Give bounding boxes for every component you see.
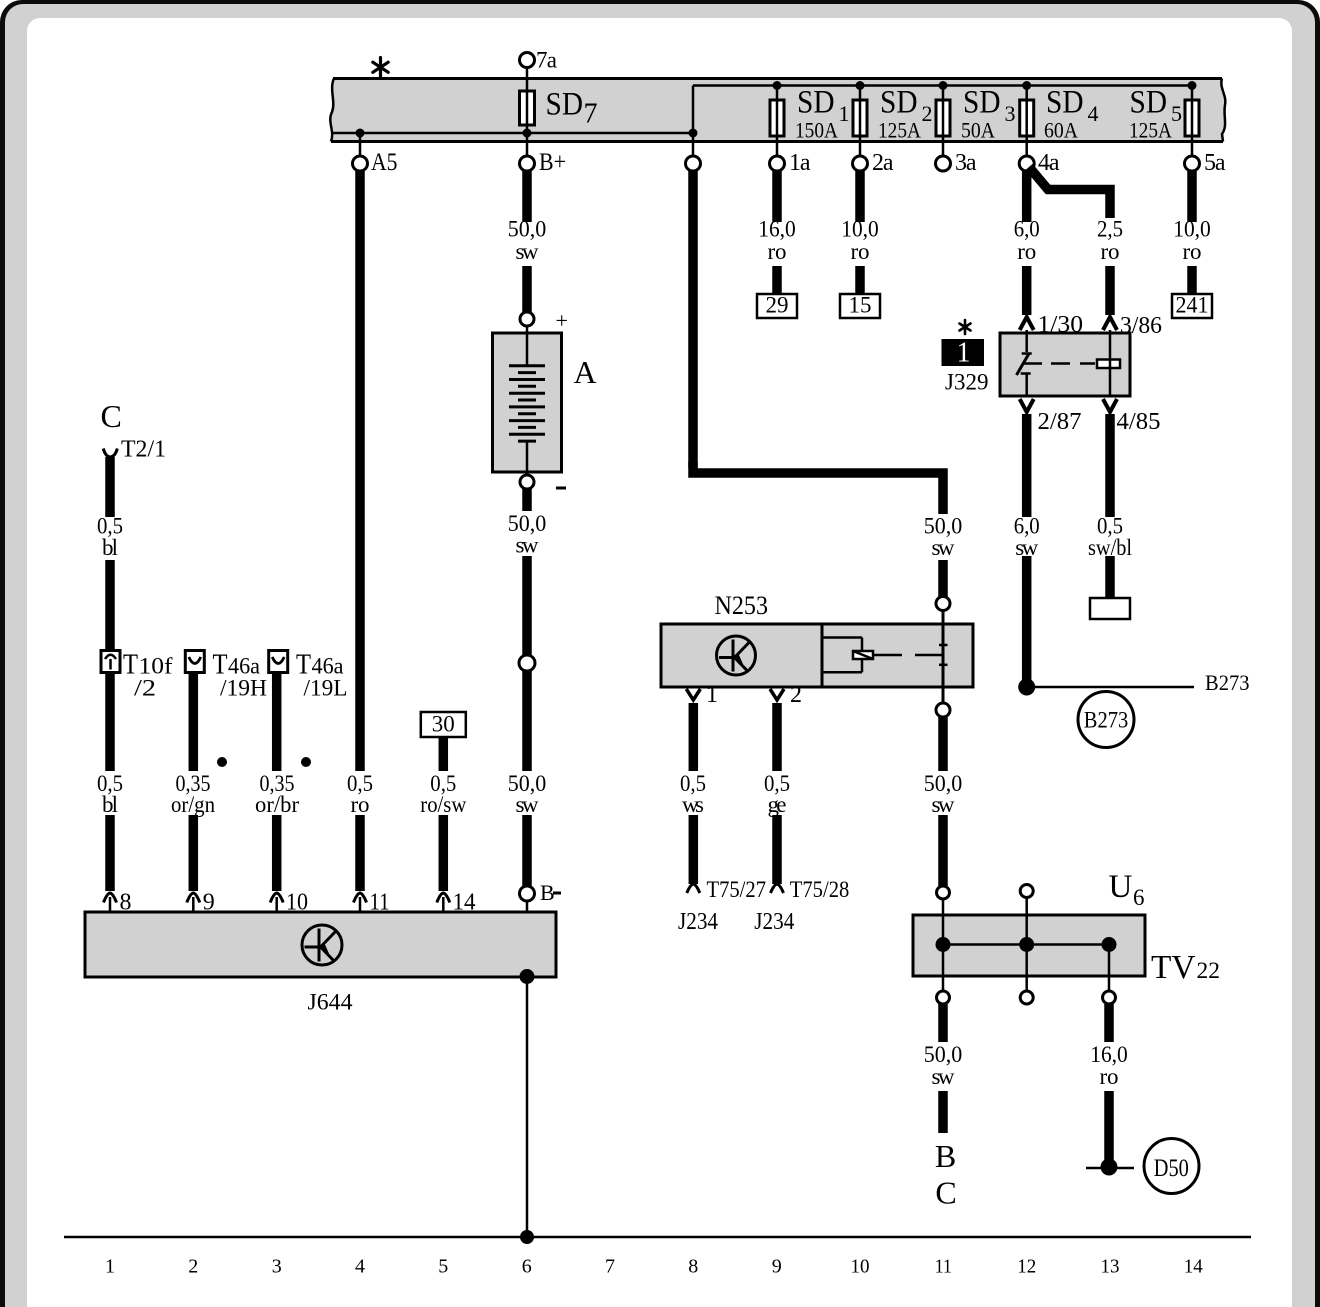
svg-text:30: 30 (432, 712, 455, 737)
svg-text:SD: SD (1130, 85, 1168, 121)
svg-text:ws: ws (682, 792, 704, 817)
svg-text:2a: 2a (872, 150, 894, 176)
svg-text:10,0: 10,0 (1173, 217, 1211, 242)
svg-text:50,0: 50,0 (508, 217, 547, 242)
svg-text:7a: 7a (536, 48, 557, 73)
svg-text:B273: B273 (1205, 670, 1250, 695)
svg-text:SD: SD (963, 85, 1001, 121)
svg-text:B: B (935, 1138, 956, 1174)
svg-text:11: 11 (935, 1256, 952, 1278)
svg-text:150A: 150A (795, 118, 839, 143)
svg-text:3a: 3a (955, 150, 977, 176)
svg-text:3: 3 (272, 1256, 282, 1278)
svg-text:SD: SD (1046, 85, 1084, 121)
svg-text:sw: sw (1015, 535, 1038, 560)
svg-text:/19H: /19H (220, 676, 267, 702)
svg-text:sw/bl: sw/bl (1088, 535, 1132, 560)
svg-text:1: 1 (957, 338, 971, 369)
svg-text:U: U (1109, 869, 1133, 905)
svg-text:60A: 60A (1044, 118, 1079, 143)
svg-text:C: C (935, 1175, 956, 1211)
svg-text:J234: J234 (754, 909, 794, 935)
svg-text:1a: 1a (789, 150, 811, 176)
svg-text:N253: N253 (715, 590, 769, 620)
svg-text:8: 8 (688, 1256, 698, 1278)
svg-text:125A: 125A (878, 118, 922, 143)
svg-text:6: 6 (522, 1256, 532, 1278)
svg-text:5: 5 (1171, 101, 1182, 126)
svg-text:ge: ge (768, 792, 787, 817)
svg-text:5a: 5a (1204, 150, 1226, 176)
svg-text:SD: SD (797, 85, 835, 121)
svg-text:T75/28: T75/28 (790, 877, 850, 903)
svg-text:B: B (540, 880, 555, 905)
svg-text:5: 5 (438, 1256, 448, 1278)
svg-text:10: 10 (851, 1256, 870, 1278)
svg-text:4/85: 4/85 (1117, 408, 1161, 435)
svg-text:/2: /2 (134, 676, 156, 702)
svg-text:2: 2 (188, 1256, 198, 1278)
svg-text:ro: ro (1017, 239, 1036, 264)
svg-text:4: 4 (355, 1256, 365, 1278)
svg-text:sw: sw (932, 792, 955, 817)
svg-text:ro: ro (1100, 1064, 1119, 1089)
svg-text:C: C (101, 398, 122, 434)
svg-text:B+: B+ (539, 149, 566, 176)
svg-text:1: 1 (706, 682, 718, 708)
svg-text:3: 3 (1005, 101, 1016, 126)
svg-text:SD: SD (880, 85, 918, 121)
svg-text:or/br: or/br (255, 792, 299, 817)
svg-text:6,0: 6,0 (1014, 217, 1040, 242)
svg-text:14: 14 (1184, 1256, 1203, 1278)
svg-text:J329: J329 (945, 370, 989, 396)
svg-text:241: 241 (1176, 293, 1209, 318)
svg-text:16,0: 16,0 (758, 217, 796, 242)
svg-text:125A: 125A (1129, 118, 1173, 143)
svg-text:T75/27: T75/27 (707, 877, 767, 903)
svg-text:+: + (556, 308, 568, 333)
svg-text:sw: sw (932, 1064, 955, 1089)
svg-text:D50: D50 (1154, 1155, 1189, 1182)
svg-text:B273: B273 (1084, 708, 1129, 733)
svg-text:ro: ro (851, 239, 870, 264)
svg-text:ro: ro (1101, 239, 1120, 264)
svg-text:A5: A5 (371, 149, 398, 176)
svg-text:10,0: 10,0 (841, 217, 879, 242)
svg-text:2,5: 2,5 (1097, 217, 1123, 242)
svg-text:T2/1: T2/1 (121, 437, 166, 463)
svg-text:J644: J644 (308, 990, 353, 1016)
svg-text:12: 12 (1017, 1256, 1036, 1278)
svg-text:50A: 50A (961, 118, 996, 143)
svg-text:13: 13 (1101, 1256, 1120, 1278)
svg-text:sw: sw (932, 535, 955, 560)
svg-text:1: 1 (105, 1256, 115, 1278)
svg-text:/19L: /19L (304, 676, 348, 702)
svg-text:A: A (574, 354, 597, 390)
svg-text:J234: J234 (678, 909, 718, 935)
svg-text:2: 2 (922, 101, 933, 126)
svg-text:6: 6 (1133, 885, 1145, 910)
svg-text:22: 22 (1197, 958, 1221, 983)
svg-text:4: 4 (1088, 101, 1099, 126)
svg-text:TV: TV (1151, 949, 1196, 986)
svg-text:4a: 4a (1038, 150, 1060, 176)
svg-text:1: 1 (839, 101, 850, 126)
svg-text:bl: bl (102, 792, 118, 817)
svg-text:bl: bl (102, 535, 118, 560)
svg-text:or/gn: or/gn (171, 792, 215, 817)
svg-text:9: 9 (772, 1256, 782, 1278)
svg-text:sw: sw (516, 792, 539, 817)
svg-text:7: 7 (584, 99, 598, 130)
svg-text:29: 29 (766, 293, 789, 318)
svg-text:2/87: 2/87 (1038, 408, 1082, 435)
svg-text:ro: ro (1183, 239, 1202, 264)
svg-text:sw: sw (516, 239, 539, 264)
svg-text:sw: sw (516, 533, 539, 558)
svg-text:SD: SD (546, 87, 584, 123)
svg-text:15: 15 (849, 293, 872, 318)
svg-text:ro: ro (768, 239, 787, 264)
svg-text:ro: ro (351, 792, 370, 817)
svg-text:ro/sw: ro/sw (420, 792, 466, 817)
svg-text:7: 7 (605, 1256, 615, 1278)
svg-text:2: 2 (790, 682, 802, 708)
